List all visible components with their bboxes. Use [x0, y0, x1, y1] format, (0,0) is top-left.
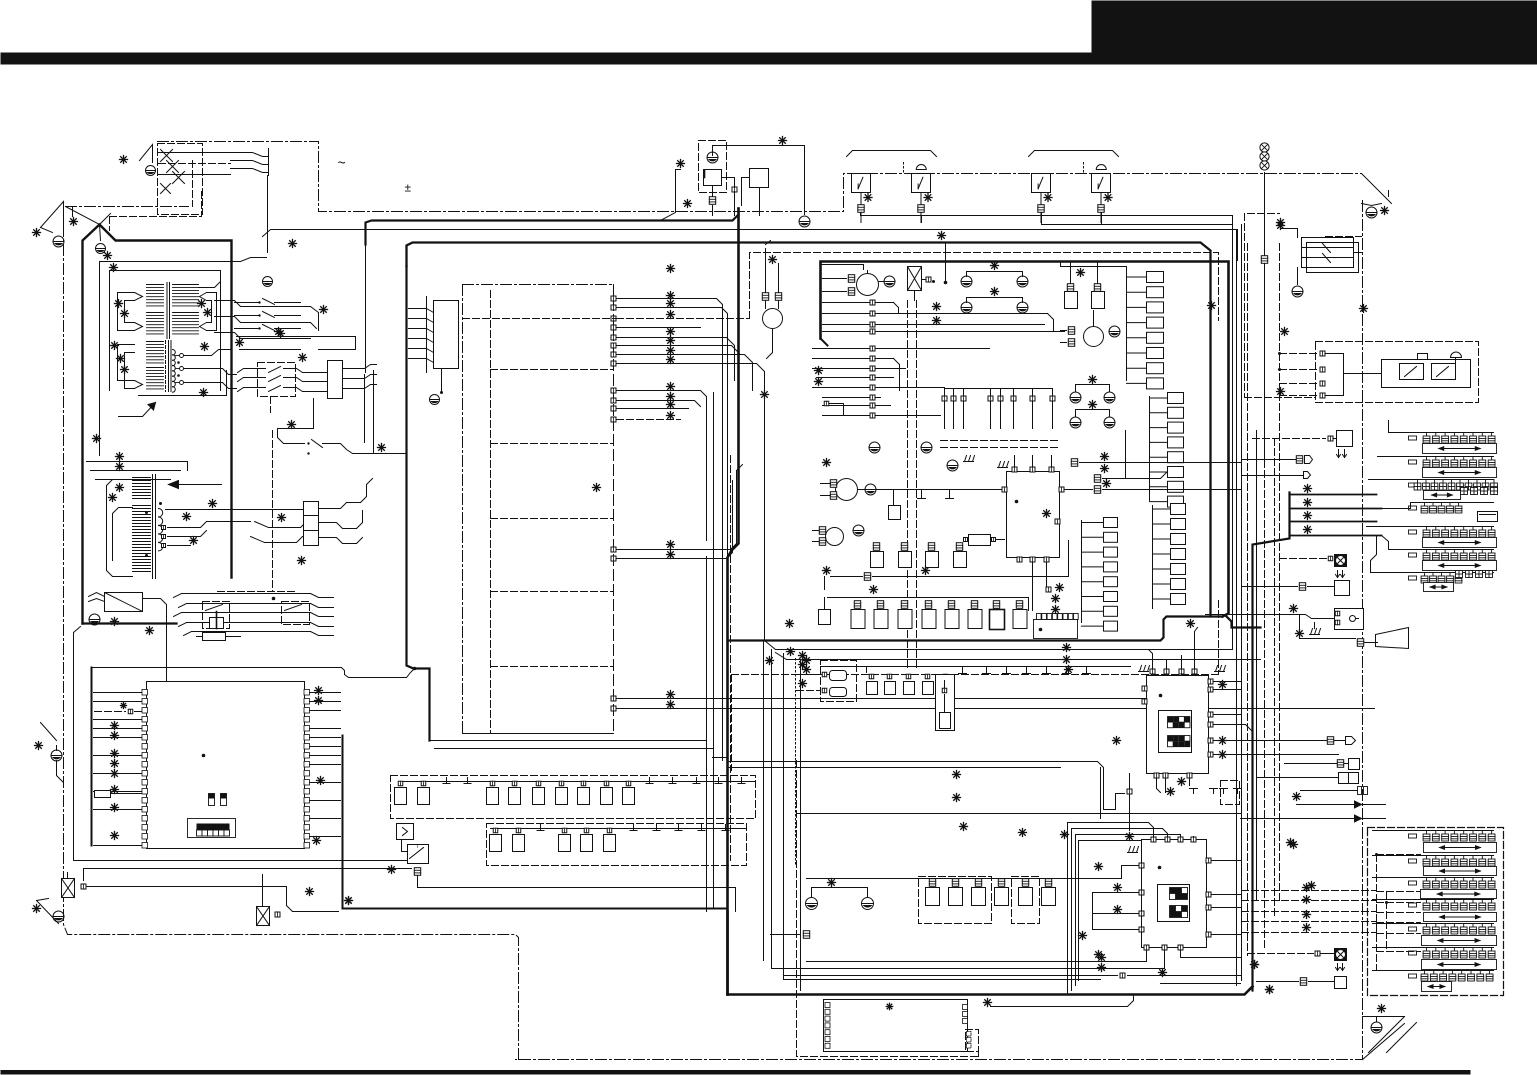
adjust mark [766, 657, 774, 665]
winding bumps [173, 350, 176, 393]
adjust mark [922, 567, 930, 575]
bus wire [1149, 397, 1151, 501]
wire [1214, 681, 1241, 683]
adjust mark [201, 343, 209, 351]
dashed wire [1326, 236, 1362, 238]
wire [1082, 596, 1104, 598]
adjust mark [1098, 964, 1106, 972]
wire [922, 279, 926, 281]
wire [772, 951, 1165, 969]
wire [1212, 894, 1241, 896]
wire [91, 470, 181, 472]
wire [1093, 929, 1139, 931]
relay driver [908, 267, 922, 291]
pin [1208, 722, 1213, 727]
frame corner [1362, 174, 1392, 204]
wire [784, 976, 1118, 980]
capacitor [867, 682, 878, 695]
adjust mark [667, 328, 675, 336]
ground [961, 276, 972, 287]
wire [1000, 389, 1002, 396]
wire [876, 368, 906, 370]
bus wire [1125, 431, 1127, 479]
pad box [1104, 606, 1118, 616]
wire [67, 873, 69, 879]
bus wire [722, 541, 724, 761]
wire [876, 405, 891, 407]
frame border [158, 142, 1362, 212]
dashed switch [203, 602, 230, 629]
adjust mark [209, 500, 217, 508]
tuner block heavy border [407, 267, 430, 741]
pin [1139, 863, 1144, 868]
junction [944, 281, 948, 285]
amp border bevel [821, 339, 828, 346]
switch wire [231, 169, 269, 173]
adjust mark [667, 292, 675, 300]
adjust mark [320, 306, 328, 314]
tap [180, 354, 184, 358]
stub [1223, 789, 1225, 794]
adjust mark [104, 252, 112, 260]
wire [617, 346, 740, 354]
adjust mark [116, 453, 124, 461]
dashed wire [192, 161, 194, 207]
dashed border [1218, 601, 1220, 675]
adjust mark [121, 310, 129, 318]
dashed module [821, 661, 857, 702]
adjust mark [803, 657, 811, 665]
stub [1063, 673, 1071, 675]
adjust mark [1095, 863, 1103, 871]
dashed wire [1377, 854, 1421, 856]
wire [876, 387, 945, 389]
wire [712, 186, 714, 197]
dashed selector block [1368, 828, 1504, 996]
capacitor [851, 610, 865, 629]
capacitor [926, 888, 940, 906]
wire [94, 755, 142, 757]
wire [94, 692, 142, 694]
wire [1101, 866, 1122, 879]
title block [1092, 1, 1537, 65]
wire [197, 636, 203, 638]
switch lever [285, 605, 302, 611]
pin [870, 403, 875, 408]
wire [944, 681, 946, 688]
dashed divider [491, 443, 614, 445]
capacitor [941, 682, 952, 695]
adjust mark [190, 537, 198, 545]
wire [319, 523, 357, 529]
ground [1017, 302, 1028, 313]
wire [1149, 650, 1153, 669]
wire [1082, 551, 1104, 553]
transformer core [166, 283, 168, 339]
wire [953, 389, 955, 396]
slide switch [1367, 527, 1497, 548]
slide switch [1378, 457, 1497, 478]
pad box [1168, 437, 1184, 448]
arrow plug [1355, 815, 1386, 822]
wire [1150, 427, 1168, 429]
dashed bus [1386, 892, 1388, 952]
pin [1154, 773, 1159, 778]
pin [951, 396, 956, 401]
pennant diagonal [1369, 1017, 1405, 1053]
adjust mark [1219, 751, 1227, 759]
dashed divider [491, 369, 614, 371]
wire [100, 225, 101, 241]
wire [1344, 373, 1382, 375]
connector pin [493, 828, 498, 833]
adjust mark [183, 513, 191, 521]
dashed remote block [1316, 342, 1479, 403]
bottom rule [1, 1070, 1471, 1075]
dashed bus [1244, 214, 1246, 398]
wire [168, 545, 191, 547]
wire [813, 530, 819, 532]
pin [1206, 858, 1211, 863]
inner frame [1159, 711, 1192, 753]
adjust mark [1089, 376, 1097, 384]
connector [1300, 978, 1306, 986]
adjust mark [1056, 584, 1064, 592]
pin [1320, 367, 1325, 372]
wire [876, 397, 881, 399]
adjust mark [667, 300, 675, 308]
wire [1382, 536, 1389, 550]
pin [1208, 679, 1213, 684]
connector pin [942, 688, 947, 693]
slide switch [1369, 480, 1498, 500]
regulator IC [704, 170, 722, 186]
wire [734, 192, 736, 216]
wire [1214, 754, 1339, 756]
tuner pin [963, 1005, 968, 1010]
adjust mark [1095, 951, 1103, 959]
wire [873, 541, 1069, 577]
arrows [1337, 450, 1347, 458]
winding lead point [200, 323, 207, 327]
connector wire [427, 349, 434, 353]
adjust mark [984, 999, 992, 1007]
stub [443, 783, 450, 785]
dashed wire [941, 447, 1061, 449]
pennant [1363, 1016, 1405, 1018]
pin [1055, 519, 1060, 524]
connector pin [490, 781, 495, 786]
adjust mark [306, 888, 314, 896]
wire [1285, 763, 1349, 765]
pin [1150, 669, 1155, 674]
dashed divider [490, 291, 492, 734]
adjust mark [1101, 465, 1109, 473]
adjust mark [111, 342, 119, 350]
wire [1127, 276, 1147, 278]
capacitor [922, 610, 936, 629]
dashed bus [916, 301, 918, 669]
wire [168, 531, 207, 537]
winding lead point [135, 381, 143, 389]
adjust mark [667, 347, 675, 355]
switch wire [275, 302, 301, 304]
pin [1187, 773, 1192, 778]
dashed border [797, 761, 979, 1057]
capacitor [904, 682, 915, 695]
junction [177, 374, 180, 377]
pennant [41, 202, 64, 232]
wire [823, 278, 847, 280]
capacitor [949, 888, 963, 906]
pad box [1104, 518, 1118, 528]
wire [310, 764, 341, 766]
pad box [1168, 467, 1184, 478]
wire [1127, 322, 1147, 324]
connector pin [607, 828, 612, 833]
dashed wire [270, 397, 272, 413]
switch wire [238, 369, 266, 373]
switch lever [269, 367, 281, 373]
wire bend [311, 604, 334, 608]
adjust mark [1063, 644, 1071, 652]
pin [1206, 905, 1211, 910]
connector pin [536, 781, 541, 786]
pin [1139, 890, 1144, 895]
pin [611, 361, 616, 366]
adjust mark [111, 722, 119, 730]
connector [1098, 205, 1104, 213]
wire [1382, 503, 1411, 509]
connector bracket [426, 297, 428, 373]
pin [611, 343, 616, 348]
tuner module [824, 1000, 968, 1052]
wire [66, 207, 100, 225]
stub [653, 830, 660, 832]
selector wire [1290, 535, 1382, 537]
wire [1006, 667, 1008, 674]
capacitor [940, 713, 951, 729]
adjust mark [667, 412, 675, 420]
wire [1243, 475, 1304, 477]
wire [215, 317, 311, 323]
wire [1076, 835, 1181, 837]
connector pin [1120, 973, 1125, 978]
connector pin [906, 674, 911, 679]
wire [778, 301, 780, 309]
wire [813, 368, 870, 370]
pad box [1147, 363, 1164, 374]
bus wire [1078, 841, 1080, 981]
stub [675, 830, 682, 832]
switch [1092, 165, 1111, 193]
jack box [1349, 773, 1359, 784]
connector pin [559, 781, 564, 786]
grid pads [1456, 571, 1493, 578]
wire [1153, 553, 1171, 555]
junction [159, 502, 162, 505]
CPU pins [142, 690, 310, 849]
capacitor [487, 788, 499, 805]
pin [1142, 699, 1147, 704]
wire [1127, 291, 1147, 293]
adjust mark [345, 897, 353, 905]
stub [1003, 673, 1011, 675]
adjust mark [1043, 510, 1051, 518]
adjust mark [667, 691, 675, 699]
wire [310, 746, 341, 748]
wire [860, 193, 862, 205]
pin [611, 696, 616, 701]
wire [1153, 598, 1171, 600]
wire [824, 598, 826, 610]
tuner pin [967, 1032, 972, 1037]
wire [72, 207, 74, 217]
wire [267, 176, 269, 253]
ground [51, 750, 62, 761]
adjust mark [1178, 778, 1186, 786]
connector pin [822, 672, 827, 677]
pad box [1168, 422, 1184, 433]
switch lever [255, 522, 269, 528]
tuner pin [963, 1019, 968, 1024]
pin [870, 346, 875, 351]
pin [611, 556, 616, 561]
adjust mark [803, 666, 811, 674]
switch wire [238, 378, 266, 382]
wire [94, 719, 142, 721]
stub [1210, 788, 1218, 790]
relay wire [343, 375, 377, 379]
connector [952, 879, 958, 887]
wire [1236, 230, 1238, 331]
winding lead loop [207, 301, 212, 323]
stub [1213, 789, 1215, 794]
relay [1302, 238, 1354, 268]
wire [1321, 953, 1335, 955]
relay wire [343, 385, 377, 389]
wire [1241, 818, 1355, 820]
connector [975, 879, 981, 887]
connector pin [887, 674, 892, 679]
adjust mark [115, 300, 123, 308]
connector pin [581, 781, 586, 786]
winding lead loop [125, 353, 135, 389]
wire [997, 539, 1005, 541]
wire [1354, 252, 1362, 254]
bus wire [783, 654, 785, 980]
wire [1455, 358, 1457, 364]
adjust mark [1303, 924, 1311, 932]
wire [361, 479, 373, 503]
wire [990, 402, 992, 429]
capacitor [559, 835, 571, 852]
wire [766, 241, 771, 245]
connector [1357, 639, 1363, 647]
button [1418, 354, 1428, 360]
wire [876, 324, 1045, 326]
slide switch [1373, 856, 1497, 876]
fuse [62, 879, 75, 898]
wire [813, 541, 819, 543]
pin [1012, 467, 1017, 472]
dashed wire [1280, 395, 1318, 397]
bus wire heavy [366, 209, 739, 245]
wire [94, 728, 142, 730]
wire [435, 748, 714, 750]
resistor [203, 633, 226, 641]
switch lever [206, 605, 223, 611]
wire [894, 359, 900, 391]
jack box [1349, 759, 1360, 770]
ground [96, 244, 106, 254]
switch wire [231, 153, 269, 157]
wire [262, 875, 264, 901]
ground [862, 898, 874, 910]
wire [1314, 623, 1316, 629]
wire [1103, 489, 1241, 491]
dashed module [1221, 781, 1240, 805]
bus wire heavy [343, 908, 728, 910]
adjust mark [761, 391, 769, 399]
pin [870, 356, 875, 361]
wire [87, 886, 287, 888]
choke winding [133, 506, 151, 572]
tap wire [184, 369, 237, 375]
wire [365, 246, 367, 373]
pin [870, 322, 875, 327]
cross line [173, 172, 185, 184]
wire [828, 597, 1020, 599]
bus wire [1081, 521, 1083, 623]
pin [870, 366, 875, 371]
relay [304, 502, 319, 546]
wire [313, 399, 315, 426]
wire [262, 901, 264, 907]
relay coil [328, 361, 343, 399]
ground [1215, 666, 1226, 672]
wire [311, 323, 317, 329]
wire [945, 243, 947, 281]
wire [742, 178, 750, 206]
ground [1371, 1022, 1382, 1033]
mini switch [209, 794, 215, 806]
ground [53, 236, 64, 247]
wire [319, 503, 361, 509]
wire [1362, 204, 1382, 206]
CPU block [147, 682, 305, 849]
connector pin [943, 674, 948, 679]
dashed wire [1242, 911, 1377, 913]
dashed wire [1377, 902, 1421, 904]
filter box [936, 675, 955, 731]
pin [870, 311, 875, 316]
connector [830, 480, 836, 488]
stub [537, 830, 544, 832]
cross line [167, 161, 179, 173]
dashed link [1245, 397, 1316, 399]
wire [1061, 330, 1067, 332]
wire [278, 399, 314, 444]
pin [611, 417, 616, 422]
ground [806, 898, 818, 910]
capacitor [898, 610, 912, 629]
main bus heavy [728, 987, 1253, 995]
wire [776, 653, 1261, 660]
adjust mark [275, 328, 283, 336]
arrows [1336, 571, 1345, 578]
adjust mark [109, 494, 117, 502]
